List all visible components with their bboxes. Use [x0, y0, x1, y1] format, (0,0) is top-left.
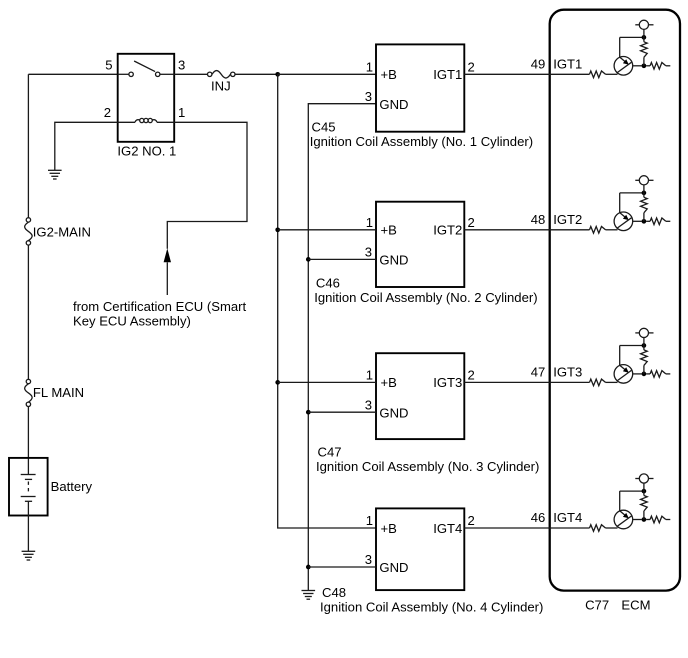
- svg-text:INJ: INJ: [211, 79, 231, 94]
- transistor Q3: [614, 346, 642, 384]
- relay switch blade: [134, 61, 155, 72]
- transistor Q2: [614, 193, 642, 231]
- svg-text:IGT1: IGT1: [553, 56, 582, 71]
- node emitter row 4: [642, 517, 647, 522]
- svg-text:Battery: Battery: [51, 479, 93, 494]
- svg-text:IGT4: IGT4: [433, 521, 462, 536]
- wire collector to node row 4: [620, 490, 644, 492]
- wire resistor to transistor row 3: [606, 381, 618, 383]
- wire relay pin1 to arrow: [167, 122, 247, 249]
- resistor (pull-up) row 2: [641, 193, 648, 221]
- power terminal B+ row 4: [635, 474, 653, 491]
- svg-text:FL MAIN: FL MAIN: [33, 385, 84, 400]
- svg-text:48: 48: [531, 212, 546, 227]
- wire pin5 to left rail: [28, 73, 117, 75]
- ECM box C77: [550, 10, 680, 591]
- svg-text:Ignition Coil Assembly (No. 4: Ignition Coil Assembly (No. 4 Cylinder): [320, 600, 543, 615]
- arrow from certification ECU: [164, 248, 171, 295]
- svg-text:5: 5: [105, 57, 112, 72]
- resistor (base) row 3: [590, 379, 606, 386]
- ground (battery): [22, 551, 36, 560]
- node emitter row 3: [642, 372, 647, 377]
- wire coil 1 pin2 to ECM: [464, 73, 589, 75]
- fuse IG2-MAIN: [25, 218, 33, 245]
- svg-text:GND: GND: [379, 253, 408, 268]
- svg-text:46: 46: [531, 510, 546, 525]
- ignition coil assembly C48 box: [376, 508, 464, 590]
- node collector row 4: [642, 489, 647, 494]
- svg-text:2: 2: [468, 368, 475, 383]
- wire relay pin2 to ground: [55, 122, 118, 170]
- resistor (pull-up) row 1: [641, 37, 648, 65]
- ground (relay): [48, 170, 62, 179]
- node collector row 2: [642, 191, 647, 196]
- wire fuse INJ to node A: [235, 73, 278, 75]
- svg-text:3: 3: [365, 397, 372, 412]
- svg-text:1: 1: [366, 215, 373, 230]
- wire coil 3 pin2 to ECM: [464, 381, 589, 383]
- svg-text:C47: C47: [318, 444, 342, 459]
- svg-text:2: 2: [468, 60, 475, 75]
- svg-text:+B: +B: [381, 223, 398, 238]
- svg-text:C48: C48: [322, 585, 346, 600]
- svg-text:IGT3: IGT3: [553, 364, 582, 379]
- svg-text:3: 3: [178, 57, 185, 72]
- svg-text:Ignition Coil Assembly (No. 1: Ignition Coil Assembly (No. 1 Cylinder): [310, 134, 533, 149]
- svg-text:1: 1: [366, 513, 373, 528]
- wire +B rail to coil 2: [278, 229, 376, 231]
- relay IG2 NO. 1 box: [118, 54, 175, 142]
- svg-text:49: 49: [531, 56, 546, 71]
- svg-text:Ignition Coil Assembly (No. 3: Ignition Coil Assembly (No. 3 Cylinder): [316, 459, 539, 474]
- power terminal B+ row 1: [635, 20, 653, 37]
- svg-text:3: 3: [365, 89, 372, 104]
- node +B rail row3: [275, 380, 280, 385]
- svg-text:Key ECU Assembly): Key ECU Assembly): [73, 314, 191, 329]
- wire left rail (lower segment into battery): [27, 407, 29, 475]
- svg-text:2: 2: [104, 105, 111, 120]
- wire coil 2 pin2 to ECM: [464, 229, 589, 231]
- wire collector to node row 1: [620, 36, 644, 38]
- node GND rail row3: [306, 410, 311, 415]
- fuse INJ: [208, 71, 236, 79]
- node GND rail row2: [306, 257, 311, 262]
- wire collector to node row 2: [620, 192, 644, 194]
- resistor (emitter) row 1: [646, 63, 670, 70]
- wire GND rail: [308, 104, 376, 591]
- resistor (emitter) row 4: [646, 516, 670, 523]
- node emitter row 1: [642, 63, 647, 68]
- svg-text:GND: GND: [379, 560, 408, 575]
- wire +B rail: [278, 74, 376, 528]
- svg-text:1: 1: [178, 105, 185, 120]
- ignition coil assembly C45 box: [376, 44, 464, 131]
- svg-text:1: 1: [366, 60, 373, 75]
- resistor (emitter) row 3: [646, 371, 670, 378]
- svg-text:from Certification ECU (Smart: from Certification ECU (Smart: [73, 299, 247, 314]
- svg-text:GND: GND: [379, 405, 408, 420]
- svg-text:3: 3: [365, 552, 372, 567]
- transistor Q1: [614, 37, 642, 75]
- resistor (emitter) row 2: [646, 218, 670, 225]
- wire battery to ground: [27, 501, 29, 551]
- relay switch contacts: [118, 72, 175, 76]
- svg-text:2: 2: [468, 513, 475, 528]
- wire left rail (top segment): [27, 74, 29, 217]
- wire +B rail to coil 3: [278, 381, 376, 383]
- svg-text:ECM: ECM: [621, 597, 650, 612]
- power terminal B+ row 3: [635, 328, 653, 345]
- svg-text:2: 2: [468, 215, 475, 230]
- svg-text:Ignition Coil Assembly (No. 2: Ignition Coil Assembly (No. 2 Cylinder): [314, 290, 537, 305]
- resistor (pull-up) row 3: [641, 346, 648, 374]
- svg-text:47: 47: [531, 364, 546, 379]
- svg-text:IGT2: IGT2: [553, 212, 582, 227]
- label from Certification ECU: [73, 299, 247, 329]
- svg-text:+B: +B: [381, 67, 398, 82]
- svg-text:IGT2: IGT2: [433, 223, 462, 238]
- wire collector to node row 3: [620, 345, 644, 347]
- battery: [9, 458, 48, 516]
- svg-text:C45: C45: [312, 119, 336, 134]
- wire resistor to transistor row 4: [606, 527, 618, 529]
- wire GND rail to coil 4: [308, 566, 376, 568]
- transistor Q4: [614, 491, 642, 529]
- svg-text:IG2 NO. 1: IG2 NO. 1: [117, 143, 176, 158]
- relay coil: [118, 118, 175, 122]
- wire GND rail to coil 2: [308, 258, 376, 260]
- svg-text:IG2-MAIN: IG2-MAIN: [33, 224, 91, 239]
- ignition coil assembly C47 box: [376, 353, 464, 439]
- svg-text:IGT4: IGT4: [553, 510, 582, 525]
- node GND rail row4: [306, 565, 311, 570]
- wire relay pin3 to fuse INJ: [174, 73, 207, 75]
- ignition coil assembly C46 box: [376, 202, 464, 287]
- svg-text:+B: +B: [381, 375, 398, 390]
- svg-text:C77: C77: [585, 597, 609, 612]
- power terminal B+ row 2: [635, 176, 653, 193]
- wire GND rail to coil 3: [308, 411, 376, 413]
- node collector row 1: [642, 35, 647, 40]
- node +B rail row2: [275, 227, 280, 232]
- resistor (base) row 1: [590, 71, 606, 78]
- wire coil 4 pin2 to ECM: [464, 527, 589, 529]
- svg-text:3: 3: [365, 245, 372, 260]
- node emitter row 2: [642, 219, 647, 224]
- node collector row 3: [642, 343, 647, 348]
- wire node A to coil 1: [278, 73, 376, 75]
- svg-text:IGT3: IGT3: [433, 375, 462, 390]
- resistor (pull-up) row 4: [641, 491, 648, 519]
- svg-text:+B: +B: [381, 521, 398, 536]
- node A junction: [275, 72, 280, 77]
- resistor (base) row 4: [590, 525, 606, 532]
- wire resistor to transistor row 1: [606, 73, 618, 75]
- svg-text:GND: GND: [379, 97, 408, 112]
- wire left rail (middle segment): [27, 245, 29, 379]
- fuse FL MAIN: [25, 379, 33, 406]
- ground (C48): [302, 591, 316, 600]
- svg-text:C46: C46: [316, 276, 340, 291]
- resistor (base) row 2: [590, 227, 606, 234]
- svg-text:1: 1: [366, 368, 373, 383]
- svg-text:IGT1: IGT1: [433, 67, 462, 82]
- wire resistor to transistor row 2: [606, 229, 618, 231]
